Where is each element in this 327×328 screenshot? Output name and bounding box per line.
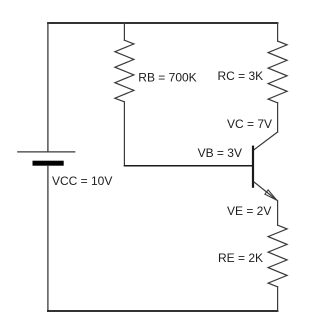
wire: left vertical from battery negative plate to bottom rail	[47, 166, 49, 311]
svg-text:RC = 3K: RC = 3K	[218, 69, 264, 83]
wire: emitter down to RE	[277, 201, 279, 226]
transistor Q1 base bar	[252, 147, 254, 187]
wire: top rail from left branch to right branch	[48, 22, 278, 24]
resistor RC (zigzag)	[268, 41, 287, 103]
resistor RB (zigzag)	[115, 40, 134, 102]
svg-text:VCC = 10V: VCC = 10V	[52, 174, 112, 188]
wire: bottom rail	[48, 310, 278, 312]
wire: RB bottom to base node corner	[123, 102, 125, 166]
transistor Q1 collector lead (diagonal)	[254, 132, 278, 150]
svg-text:VB = 3V: VB = 3V	[198, 146, 242, 160]
transistor Q1 emitter lead (diagonal)	[254, 182, 277, 200]
transistor Q1 emitter arrowhead (open)	[265, 190, 277, 200]
wire: RB branch drop from top rail	[123, 23, 125, 40]
wire: RC bottom to collector bend	[277, 103, 279, 132]
wire: left vertical from top rail to battery positive plate	[47, 23, 49, 152]
svg-text:VC = 7V: VC = 7V	[227, 117, 272, 131]
wire: RC branch drop from top rail	[277, 23, 279, 41]
svg-text:VE = 2V: VE = 2V	[227, 204, 271, 218]
battery VCC positive plate (long thin line)	[18, 151, 75, 153]
svg-text:RB = 700K: RB = 700K	[138, 70, 196, 84]
wire: RE bottom to bottom rail	[277, 287, 279, 311]
wire: horizontal base wire to transistor	[125, 165, 253, 167]
resistor RE (zigzag)	[268, 225, 287, 287]
battery VCC negative plate (short thick bar)	[33, 161, 64, 166]
svg-text:RE = 2K: RE = 2K	[218, 251, 263, 265]
